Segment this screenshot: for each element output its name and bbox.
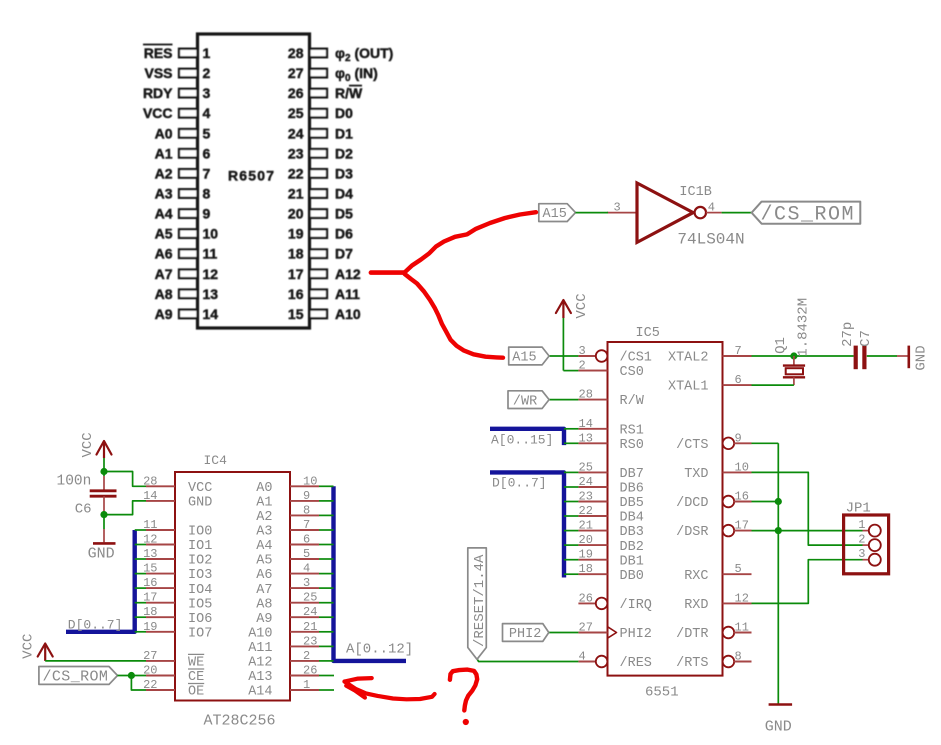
- svg-text:3: 3: [579, 344, 586, 358]
- svg-text:10: 10: [203, 226, 219, 242]
- svg-text:4: 4: [203, 105, 211, 121]
- svg-text:14: 14: [579, 417, 593, 431]
- svg-text:6: 6: [735, 373, 742, 387]
- svg-text:/WR: /WR: [513, 394, 537, 409]
- svg-text:19: 19: [579, 548, 593, 562]
- svg-text:PHI2: PHI2: [620, 627, 652, 642]
- svg-text:D6: D6: [335, 226, 353, 242]
- svg-text:6: 6: [203, 145, 211, 161]
- svg-text:CS0: CS0: [620, 365, 644, 380]
- svg-text:4: 4: [579, 650, 586, 664]
- svg-text:R/W: R/W: [620, 394, 645, 409]
- svg-text:2: 2: [303, 649, 310, 663]
- svg-text:1: 1: [858, 518, 865, 532]
- svg-text:D7: D7: [335, 246, 353, 262]
- svg-text:JP1: JP1: [846, 500, 871, 516]
- svg-text:C7: C7: [858, 330, 874, 347]
- svg-text:26: 26: [579, 591, 593, 605]
- svg-text:7: 7: [203, 165, 211, 181]
- svg-text:D5: D5: [335, 206, 353, 222]
- svg-text:27: 27: [288, 65, 304, 81]
- svg-text:21: 21: [579, 519, 593, 533]
- svg-text:D0: D0: [335, 105, 353, 121]
- svg-text:21: 21: [288, 186, 304, 202]
- svg-text:GND: GND: [188, 496, 212, 511]
- svg-text:12: 12: [735, 591, 749, 605]
- svg-text:R6507: R6507: [228, 168, 275, 184]
- svg-text:A6: A6: [256, 568, 272, 583]
- svg-text:XTAL2: XTAL2: [668, 351, 709, 366]
- svg-text:11: 11: [203, 246, 218, 262]
- svg-text:9: 9: [303, 489, 310, 503]
- svg-text:PHI2: PHI2: [509, 627, 541, 642]
- svg-text:A4: A4: [256, 539, 272, 554]
- svg-text:14: 14: [203, 306, 219, 322]
- svg-text:28: 28: [579, 388, 593, 402]
- svg-text:A1: A1: [155, 145, 173, 161]
- svg-text:A2: A2: [155, 165, 173, 181]
- svg-text:10: 10: [735, 460, 749, 474]
- svg-text:VSS: VSS: [144, 65, 172, 81]
- svg-text:/CTS: /CTS: [676, 438, 708, 453]
- svg-text:XTAL1: XTAL1: [668, 380, 709, 395]
- svg-text:5: 5: [203, 125, 211, 141]
- svg-text:A10: A10: [248, 626, 272, 641]
- svg-text:OE: OE: [188, 685, 204, 700]
- svg-text:IO6: IO6: [188, 612, 212, 627]
- svg-text:5: 5: [735, 562, 742, 576]
- svg-text:A10: A10: [335, 306, 361, 322]
- svg-text:IO7: IO7: [188, 626, 212, 641]
- svg-text:RDY: RDY: [143, 85, 173, 101]
- svg-text:8: 8: [203, 186, 211, 202]
- svg-text:24: 24: [579, 475, 593, 489]
- svg-text:IO4: IO4: [188, 583, 212, 598]
- svg-text:19: 19: [288, 226, 304, 242]
- svg-text:A5: A5: [256, 554, 272, 569]
- svg-text:TXD: TXD: [684, 467, 708, 482]
- svg-text:D[0..7]: D[0..7]: [68, 617, 123, 632]
- svg-text:RS0: RS0: [620, 438, 644, 453]
- svg-text:VCC: VCC: [574, 293, 590, 318]
- svg-text:A3: A3: [256, 525, 272, 540]
- svg-text:/RTS: /RTS: [676, 656, 708, 671]
- svg-text:D4: D4: [335, 186, 353, 202]
- svg-text:IO0: IO0: [188, 525, 212, 540]
- svg-text:DB6: DB6: [620, 482, 644, 497]
- svg-text:IO2: IO2: [188, 554, 212, 569]
- svg-text:6: 6: [303, 533, 310, 547]
- svg-text:A15: A15: [543, 207, 567, 222]
- svg-text:17: 17: [288, 266, 304, 282]
- svg-text:RXC: RXC: [684, 569, 708, 584]
- svg-text:4: 4: [708, 201, 715, 215]
- svg-text:/RES: /RES: [620, 656, 652, 671]
- svg-text:/CS_ROM: /CS_ROM: [43, 669, 109, 686]
- svg-text:16: 16: [288, 286, 304, 302]
- svg-text:/CS_ROM: /CS_ROM: [761, 204, 856, 227]
- svg-text:VCC: VCC: [21, 634, 37, 659]
- svg-text:5: 5: [303, 547, 310, 561]
- svg-text:20: 20: [288, 206, 304, 222]
- svg-text:7: 7: [303, 518, 310, 532]
- svg-text:DB3: DB3: [620, 525, 644, 540]
- svg-text:A8: A8: [155, 286, 173, 302]
- svg-text:23: 23: [579, 490, 593, 504]
- svg-text:6551: 6551: [645, 685, 679, 701]
- svg-text:A12: A12: [248, 656, 272, 671]
- svg-text:A13: A13: [248, 670, 272, 685]
- svg-text:IO1: IO1: [188, 539, 212, 554]
- svg-text:13: 13: [579, 431, 593, 445]
- svg-text:22: 22: [579, 504, 593, 518]
- svg-text:21: 21: [303, 620, 317, 634]
- svg-text:13: 13: [203, 286, 219, 302]
- svg-text:A2: A2: [256, 510, 272, 525]
- svg-text:A11: A11: [335, 286, 360, 302]
- svg-text:25: 25: [288, 105, 304, 121]
- svg-text:26: 26: [303, 664, 317, 678]
- svg-text:74LS04N: 74LS04N: [677, 230, 744, 248]
- svg-text:RS1: RS1: [620, 423, 644, 438]
- svg-text:Q1: Q1: [773, 337, 789, 354]
- svg-text:22: 22: [288, 165, 304, 181]
- svg-text:IO5: IO5: [188, 597, 212, 612]
- svg-text:A12: A12: [335, 266, 361, 282]
- svg-text:2: 2: [203, 65, 211, 81]
- svg-text:8: 8: [303, 503, 310, 517]
- svg-text:1: 1: [303, 678, 310, 692]
- svg-text:24: 24: [288, 125, 304, 141]
- svg-text:A[0..15]: A[0..15]: [491, 432, 553, 447]
- svg-text:24: 24: [303, 605, 317, 619]
- svg-text:DB5: DB5: [620, 496, 644, 511]
- svg-text:4: 4: [303, 562, 310, 576]
- svg-text:3: 3: [203, 85, 211, 101]
- svg-text:7: 7: [735, 344, 742, 358]
- svg-text:A1: A1: [256, 496, 272, 511]
- svg-text:27: 27: [579, 621, 593, 635]
- svg-text:DB0: DB0: [620, 569, 644, 584]
- svg-text:IC5: IC5: [636, 326, 660, 341]
- svg-text:RES: RES: [144, 45, 173, 61]
- svg-text:/DTR: /DTR: [676, 627, 708, 642]
- svg-text:D3: D3: [335, 165, 353, 181]
- svg-text:VCC: VCC: [143, 105, 173, 121]
- svg-text:A15: A15: [512, 351, 536, 366]
- svg-text:25: 25: [579, 460, 593, 474]
- svg-text:GND: GND: [765, 719, 792, 736]
- svg-text:A9: A9: [256, 612, 272, 627]
- svg-text:VCC: VCC: [80, 432, 96, 457]
- svg-text:A3: A3: [155, 186, 173, 202]
- svg-text:DB1: DB1: [620, 554, 644, 569]
- svg-text:17: 17: [735, 519, 749, 533]
- svg-text:/RESET/1.4A: /RESET/1.4A: [472, 554, 488, 647]
- svg-text:A8: A8: [256, 597, 272, 612]
- svg-text:1: 1: [203, 45, 211, 61]
- svg-text:DB7: DB7: [620, 467, 644, 482]
- svg-text:27p: 27p: [840, 322, 856, 347]
- svg-text:12: 12: [203, 266, 219, 282]
- svg-text:2: 2: [858, 533, 865, 547]
- svg-text:3: 3: [858, 547, 865, 561]
- svg-text:IC1B: IC1B: [679, 185, 711, 200]
- svg-text:GND: GND: [88, 545, 115, 562]
- svg-text:AT28C256: AT28C256: [204, 713, 276, 730]
- svg-text:C6: C6: [75, 501, 92, 517]
- svg-text:IC4: IC4: [204, 453, 228, 468]
- svg-text:A5: A5: [155, 226, 173, 242]
- svg-text:8: 8: [735, 650, 742, 664]
- svg-text:A7: A7: [256, 583, 272, 598]
- svg-text:D2: D2: [335, 145, 353, 161]
- svg-text:25: 25: [303, 591, 317, 605]
- svg-text:9: 9: [203, 206, 211, 222]
- svg-text:A7: A7: [155, 266, 173, 282]
- svg-text:A0: A0: [256, 481, 272, 496]
- svg-text:100n: 100n: [57, 473, 92, 489]
- svg-text:10: 10: [303, 474, 317, 488]
- svg-text:A11: A11: [248, 641, 272, 656]
- svg-text:9: 9: [735, 431, 742, 445]
- svg-text:20: 20: [579, 533, 593, 547]
- svg-text:23: 23: [303, 634, 317, 648]
- svg-text:11: 11: [735, 621, 749, 635]
- svg-text:18: 18: [579, 562, 593, 576]
- svg-text:DB4: DB4: [620, 511, 644, 526]
- svg-text:3: 3: [614, 201, 621, 215]
- svg-text:A14: A14: [248, 685, 272, 700]
- svg-text:23: 23: [288, 145, 304, 161]
- svg-text:WE: WE: [188, 656, 204, 671]
- svg-text:D1: D1: [335, 125, 353, 141]
- svg-text:/IRQ: /IRQ: [620, 598, 652, 613]
- svg-text:A[0..12]: A[0..12]: [346, 642, 413, 658]
- svg-text:A9: A9: [155, 306, 173, 322]
- svg-text:R/W: R/W: [335, 85, 363, 101]
- svg-text:A6: A6: [155, 246, 173, 262]
- svg-text:26: 26: [288, 85, 304, 101]
- svg-text:/DSR: /DSR: [676, 525, 708, 540]
- svg-text:3: 3: [303, 576, 310, 590]
- svg-text:18: 18: [288, 246, 304, 262]
- svg-text:IO3: IO3: [188, 568, 212, 583]
- svg-text:GND: GND: [913, 345, 929, 370]
- svg-text:15: 15: [288, 306, 304, 322]
- svg-text:/CS1: /CS1: [620, 351, 652, 366]
- svg-text:1.8432M: 1.8432M: [795, 298, 811, 357]
- svg-text:VCC: VCC: [188, 481, 212, 496]
- svg-text:/DCD: /DCD: [676, 496, 708, 511]
- svg-text:A0: A0: [155, 125, 173, 141]
- svg-text:DB2: DB2: [620, 540, 644, 555]
- svg-text:28: 28: [288, 45, 304, 61]
- svg-text:D[0..7]: D[0..7]: [492, 476, 547, 491]
- svg-text:16: 16: [735, 490, 749, 504]
- svg-text:A4: A4: [155, 206, 173, 222]
- svg-text:RXD: RXD: [684, 598, 708, 613]
